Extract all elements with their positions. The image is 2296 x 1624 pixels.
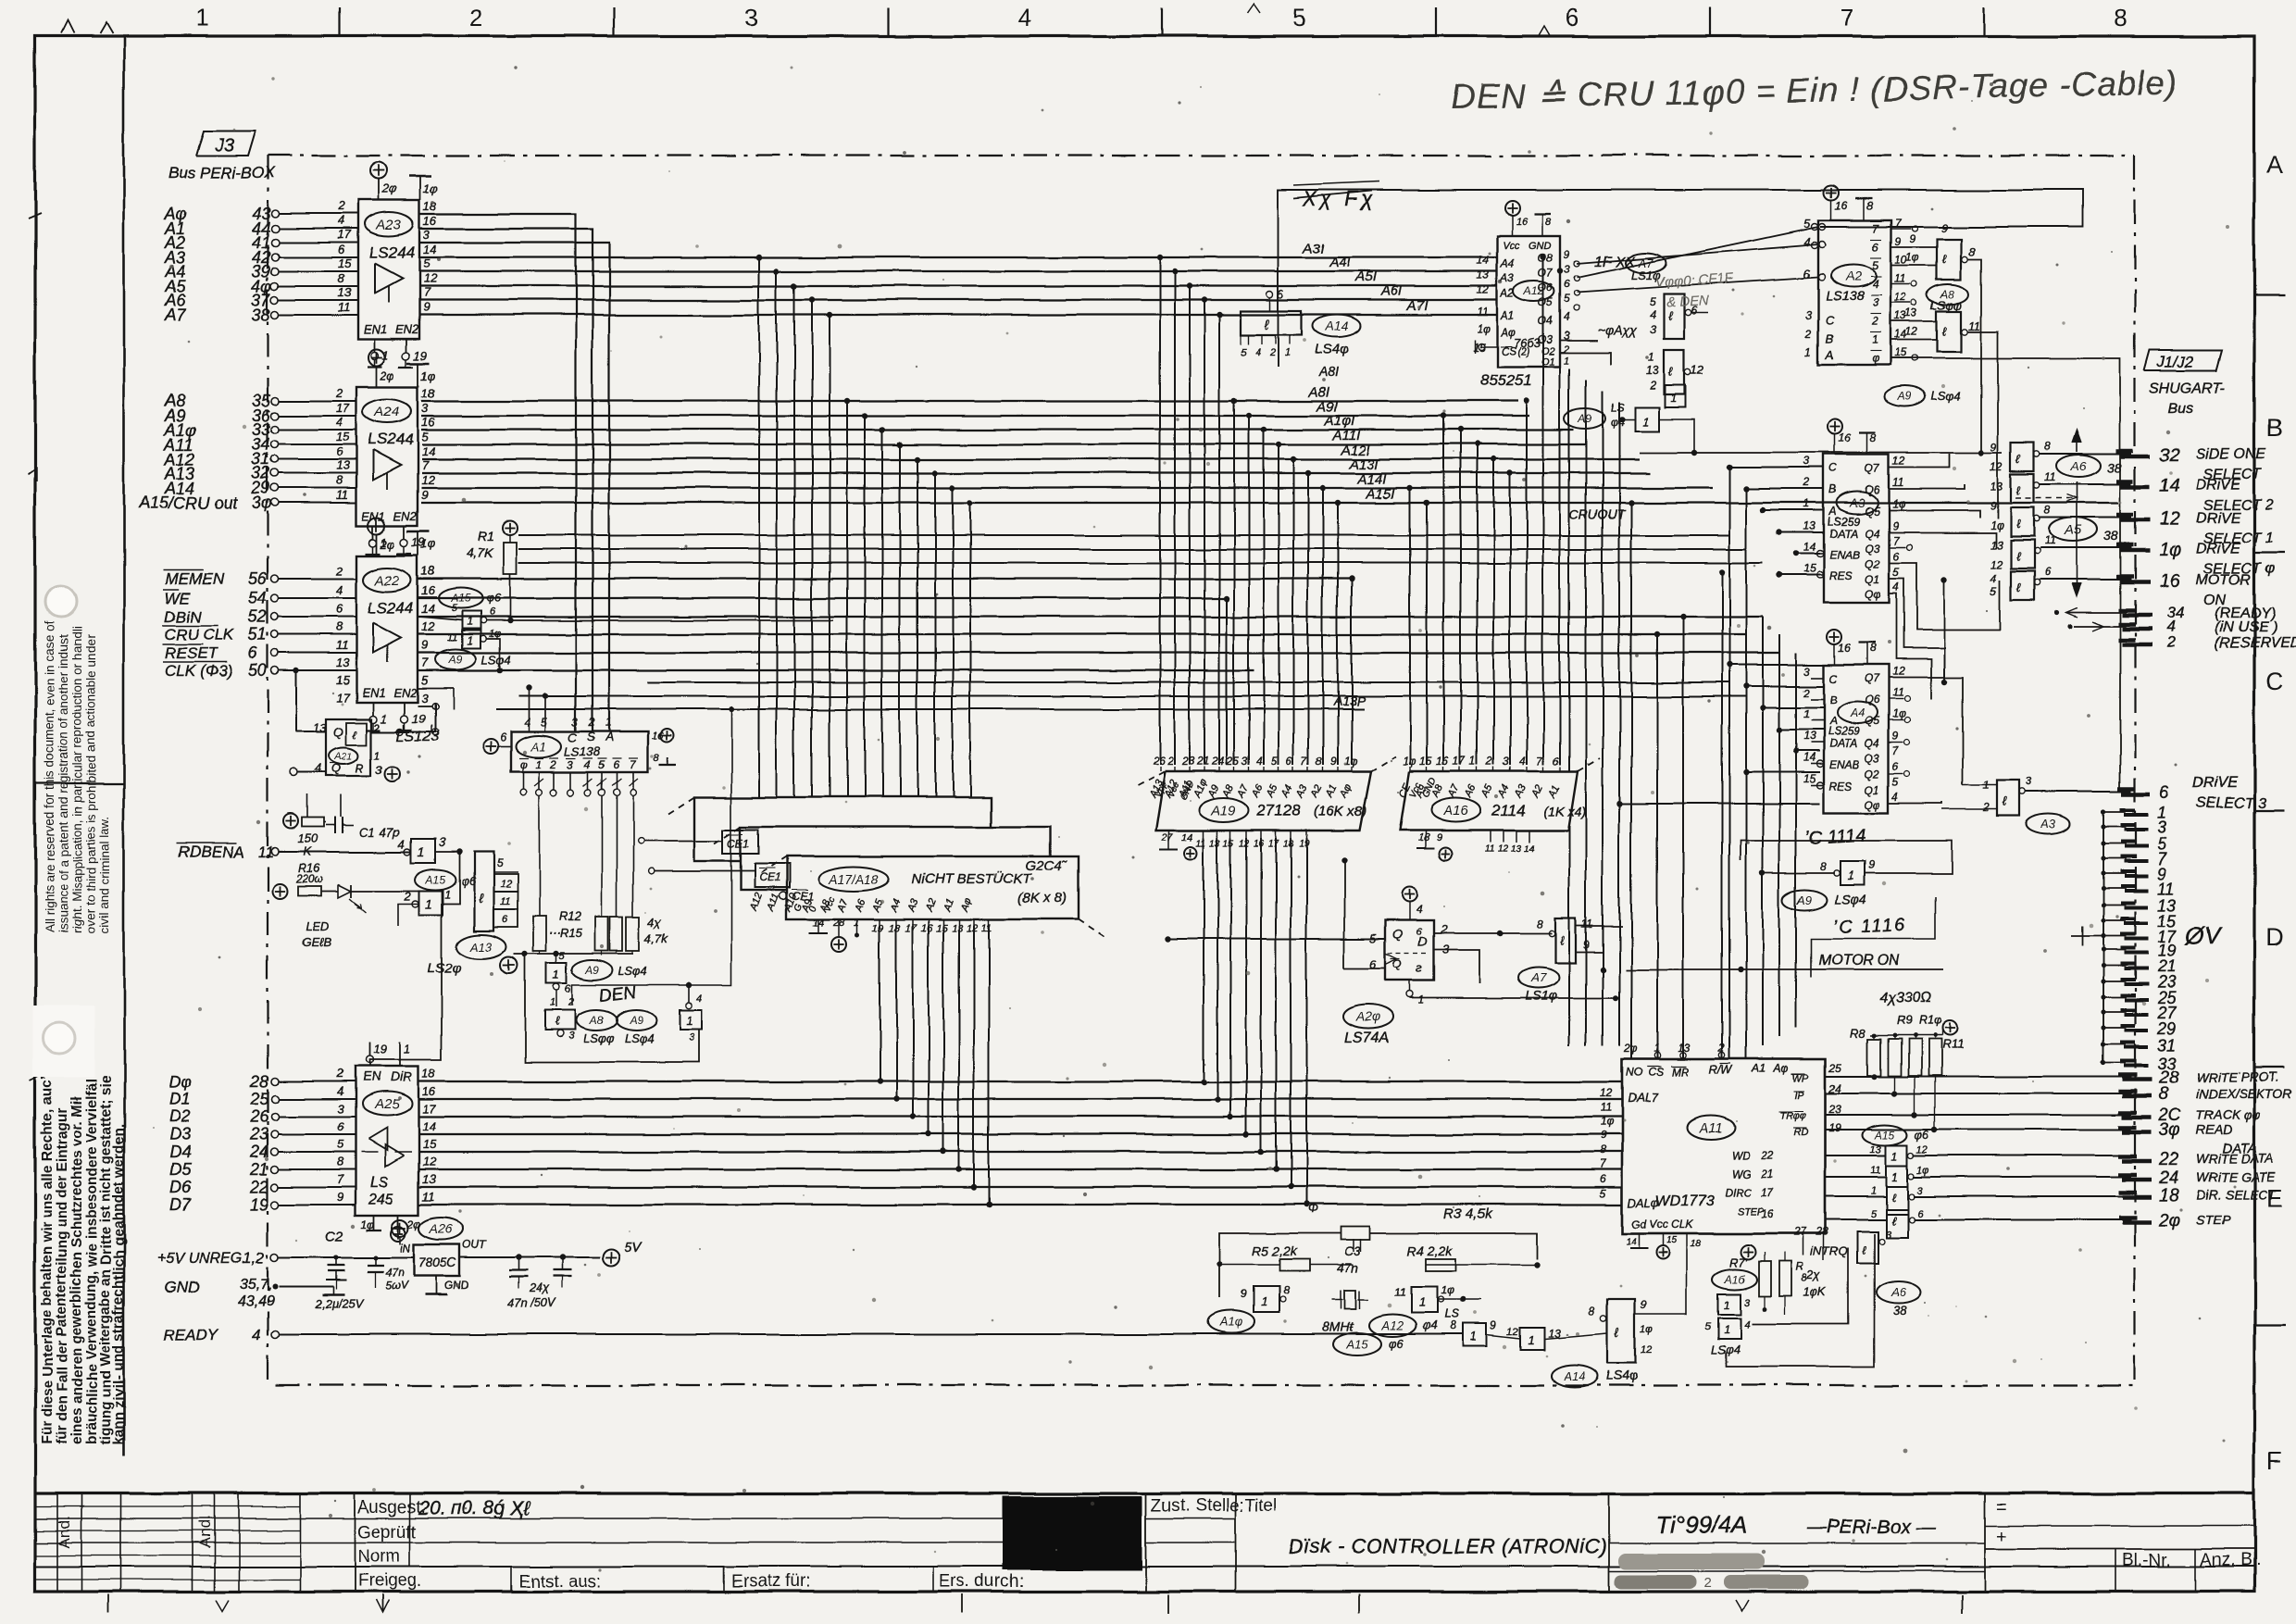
label A5I: [1354, 269, 1377, 285]
svg-text:16: 16: [1835, 199, 1848, 212]
power A13 vcc: [501, 956, 518, 973]
wire oneshot top rail: [1220, 1233, 1537, 1298]
svg-text:1: 1: [1724, 1299, 1730, 1312]
resistor R14 body: [610, 917, 623, 951]
svg-text:2χ: 2χ: [1806, 1268, 1821, 1282]
gate oneshot inv1: [1241, 1284, 1290, 1313]
shugart ground bracket: [2103, 812, 2104, 1063]
svg-text:LSφ4: LSφ4: [481, 653, 511, 667]
IC ROM G2C4 body 3 (A17/A18): [761, 856, 1106, 938]
svg-text:6: 6: [613, 758, 619, 771]
svg-text:+: +: [1996, 1527, 2007, 1547]
label 0V: [2184, 922, 2222, 950]
svg-text:3: 3: [2026, 775, 2032, 788]
bottom edge caret 1: [216, 1600, 229, 1611]
gate A14 bottom pins: [1241, 335, 1291, 358]
title col line entst: [510, 1567, 512, 1592]
svg-text:8: 8: [1450, 1319, 1456, 1332]
wire control MEMEN long: [418, 578, 1352, 580]
svg-text:16: 16: [2159, 571, 2180, 592]
IC A12 right pin stubs: [1574, 261, 1579, 311]
svg-text:5: 5: [1564, 293, 1570, 306]
wire ROM data drop x968: [893, 926, 899, 1102]
svg-text:WG: WG: [1731, 1168, 1751, 1181]
svg-text:Ersatz für:: Ersatz für:: [731, 1572, 812, 1592]
registration caret 3: [1247, 4, 1260, 13]
svg-text:17: 17: [422, 1102, 436, 1116]
wire 2114 address riser x1541: [1424, 500, 1429, 765]
label LS20: [428, 960, 462, 976]
IC A25 DIR stub: [400, 1043, 410, 1067]
svg-text:6: 6: [2044, 566, 2051, 579]
svg-text:5: 5: [1803, 217, 1811, 231]
svg-text:1: 1: [1803, 707, 1810, 720]
svg-text:7: 7: [421, 656, 429, 669]
wire 2114 address riser x1559: [1441, 413, 1446, 765]
svg-text:CE1: CE1: [759, 871, 780, 884]
wire latch A4 B feed: [1743, 683, 1824, 689]
svg-text:A9: A9: [1578, 412, 1592, 425]
IC A12 CS stub: [1475, 340, 1497, 353]
svg-text:Geprüft: Geprüft: [357, 1523, 417, 1543]
svg-text:A22: A22: [374, 572, 400, 588]
label 27 28 intrq: [1793, 1225, 1848, 1258]
svg-text:DRiVE: DRiVE: [2196, 477, 2240, 493]
svg-text:13: 13: [336, 656, 350, 669]
svg-text:1φ: 1φ: [1916, 1165, 1928, 1176]
svg-text:1: 1: [1872, 333, 1878, 346]
svg-text:RES: RES: [1829, 780, 1853, 793]
svg-text:12: 12: [421, 619, 435, 633]
svg-text:2: 2: [1803, 686, 1810, 699]
wire address A0 bus: [419, 214, 576, 731]
svg-text:ENAB: ENAB: [1829, 548, 1860, 561]
svg-text:2φ: 2φ: [381, 181, 397, 195]
resistor R2 network VCC: [283, 814, 298, 829]
wire DBiN into A22: [279, 616, 356, 618]
svg-text:2φ: 2φ: [2158, 1211, 2180, 1230]
wire A4 into A23: [279, 270, 358, 272]
svg-text:8: 8: [1866, 199, 1873, 212]
IC ROM CE1 gate box: [723, 830, 758, 854]
wire +5V unreg to 7805 IN: [279, 1256, 414, 1258]
svg-text:9: 9: [1241, 1288, 1247, 1301]
shugart DS3 label: [2118, 775, 2266, 811]
svg-text:LSφφ: LSφφ: [583, 1031, 614, 1045]
gray note voodoo line1: [1654, 271, 1733, 291]
wire A12 O6 to A2: [1577, 274, 1826, 294]
svg-text:13: 13: [952, 923, 964, 934]
wire ROM address riser x934: [862, 413, 867, 797]
svg-text:LSφ4: LSφ4: [1931, 389, 1961, 403]
svg-text:28: 28: [1816, 1225, 1829, 1238]
bottom edge tick 1: [107, 1594, 109, 1613]
svg-text:1: 1: [686, 1014, 693, 1028]
wire address A11 bus: [421, 443, 1585, 445]
wire CE2 feed: [649, 868, 755, 875]
shugart ground pin 7: [2101, 850, 2167, 868]
label R9 R10: [1896, 1013, 1942, 1027]
signal A9 name+pin: [164, 406, 279, 425]
gate DS3 pins: [1982, 775, 2032, 814]
wire 2114 address riser x1685: [1557, 269, 1563, 765]
svg-text:5: 5: [1271, 755, 1278, 768]
svg-text:1φ: 1φ: [421, 369, 436, 382]
wire address A7 bus: [419, 314, 1497, 316]
wire STEP to gates: [1826, 1218, 1886, 1220]
svg-text:4χ: 4χ: [648, 915, 662, 929]
wire ROM data drop x1052: [971, 926, 977, 1190]
svg-text:EN1: EN1: [362, 509, 385, 523]
svg-text:47n: 47n: [385, 1266, 404, 1279]
svg-text:13: 13: [1646, 364, 1659, 377]
svg-text:4,7k: 4,7k: [645, 931, 669, 945]
resistor R2 150K body: [298, 818, 324, 858]
wire D4 into A25: [279, 1151, 356, 1153]
svg-text:1: 1: [374, 749, 381, 762]
wire data D2 bus: [418, 1116, 1622, 1118]
IC A12 VCC GND pins: [1503, 201, 1552, 252]
wire 27128 address riser x1269: [1172, 269, 1178, 765]
wire A12 O1 O2 right: [1560, 341, 1611, 365]
wire IP to connector: [1826, 1093, 2131, 1094]
svg-text:18: 18: [2159, 1186, 2179, 1206]
svg-text:1φ: 1φ: [2159, 540, 2181, 560]
wire A22 pin17 stub: [397, 724, 439, 735]
IC A11 type label: [1655, 1193, 1713, 1209]
svg-text:4: 4: [252, 1326, 260, 1343]
right grid letter E: [2266, 1184, 2283, 1212]
svg-text:1: 1: [1848, 868, 1854, 882]
svg-text:Freigeg.: Freigeg.: [357, 1571, 422, 1591]
wire write data out: [1913, 1155, 2131, 1156]
gate A15c phi6 boxes: [438, 588, 501, 648]
svg-text:Q5: Q5: [1865, 715, 1879, 728]
IC A11 bottom labels: [1631, 1218, 1693, 1230]
svg-text:O3: O3: [1538, 333, 1553, 346]
wire ROM data drop x1003: [926, 926, 931, 1137]
IC A11 DAL labels: [1628, 1091, 1659, 1209]
IC A22 pin 13/7 numbers: [336, 656, 429, 669]
svg-text:2: 2: [337, 199, 345, 213]
svg-text:6: 6: [1892, 760, 1899, 773]
svg-text:8: 8: [2159, 1085, 2169, 1105]
svg-text:9: 9: [337, 1190, 343, 1204]
gate A9 motor body: [1820, 858, 1875, 885]
svg-text:D3: D3: [169, 1125, 191, 1143]
wire vertical bus x1695: [1568, 369, 1570, 1046]
IC A17/A18 designator oval: [818, 867, 889, 891]
peri-box / shugart boundary right (dash-dot): [2134, 156, 2136, 1385]
svg-text:ʼC 1114: ʼC 1114: [1804, 826, 1866, 849]
IC A23 pin 2/18 numbers: [337, 199, 437, 213]
svg-text:LED: LED: [306, 919, 329, 933]
gate A7a pins: [1650, 295, 1698, 336]
svg-text:7805C: 7805C: [418, 1255, 457, 1269]
IC A19 top pin stubs: [1160, 767, 1352, 771]
IC A2 output labels: [1870, 217, 1917, 365]
shugart pin 16 MOTOR: [2116, 571, 2252, 608]
svg-text:R12: R12: [559, 909, 582, 923]
IC A2 power: [1824, 185, 1873, 220]
IC A3 input labels: [1803, 455, 1860, 582]
svg-text:A6: A6: [2069, 458, 2086, 473]
svg-text:Vcc: Vcc: [1503, 241, 1520, 252]
svg-text:Q5: Q5: [1865, 505, 1879, 518]
oval A15 ph6 designator: [1333, 1333, 1404, 1355]
signal RDBENA name+pin: [176, 843, 279, 861]
svg-text:1φK: 1φK: [1803, 1285, 1828, 1299]
svg-text:9: 9: [1564, 248, 1570, 261]
wire A7 into A23: [279, 314, 358, 316]
svg-text:—PERi-Box —: —PERi-Box —: [1806, 1517, 1937, 1538]
svg-text:A4: A4: [1849, 706, 1865, 720]
shugart pin 28 WRiTE PROT.: [2118, 1068, 2279, 1088]
svg-text:IP: IP: [1794, 1090, 1804, 1101]
gate A14 LS40 body: [1241, 311, 1302, 335]
svg-text:A12: A12: [1380, 1319, 1404, 1333]
top ruler tick 6: [1709, 7, 1711, 37]
svg-text:Ausgest.: Ausgest.: [357, 1498, 426, 1518]
svg-text:13: 13: [336, 458, 350, 472]
svg-text:8: 8: [1316, 755, 1322, 768]
IC A23 EN2 stub: [399, 339, 427, 367]
oval A8 designator mid: [576, 1010, 617, 1045]
svg-text:27: 27: [1793, 1225, 1808, 1238]
label XXFX crossed out: [1294, 181, 1379, 210]
label R4 2.2k: [1407, 1243, 1453, 1258]
wire A7c out2: [1576, 952, 1605, 972]
shugart ground pin 9: [2101, 865, 2166, 883]
wire A1 out7 to R15: [632, 796, 634, 917]
svg-text:Q6: Q6: [1865, 693, 1879, 706]
svg-text:11: 11: [336, 638, 349, 652]
wire oneshot mid rail: [1217, 1262, 1540, 1268]
IC A4 type label: [1828, 725, 1860, 738]
svg-text:D7: D7: [169, 1195, 192, 1214]
svg-text:18: 18: [423, 199, 437, 213]
svg-text:A13: A13: [469, 940, 493, 954]
IC A11 designator oval: [1687, 1116, 1735, 1140]
capacitor C1 47p: [326, 817, 400, 839]
label 2x 10K: [1803, 1268, 1828, 1299]
handwritten title disk-controller: [1289, 1535, 1607, 1558]
IC A3 LS259 body: [1824, 455, 1889, 603]
IC A24 buffer symbol: [373, 450, 401, 489]
svg-text:B: B: [1829, 483, 1837, 496]
IC A21 LS123 body: [326, 718, 371, 776]
svg-text:C3: C3: [1344, 1243, 1361, 1258]
IC A20 pin numbers: [1370, 922, 1450, 971]
resistor R13 body: [595, 917, 608, 951]
svg-text:C: C: [1826, 313, 1835, 327]
wire A3 Q4 route: [1889, 532, 1996, 548]
label Ers durch: [939, 1572, 1024, 1592]
svg-text:3: 3: [744, 4, 757, 31]
svg-text:1: 1: [425, 896, 432, 911]
svg-text:11: 11: [1394, 1286, 1405, 1299]
IC A3 power: [1828, 419, 1877, 455]
shugart ground pin 5: [2101, 835, 2167, 854]
label Ausgest: [357, 1498, 426, 1518]
IC A3 Q3 nc stub: [1889, 544, 1912, 550]
svg-text:WD: WD: [1731, 1149, 1750, 1162]
wire ROM data drop x950: [877, 926, 882, 1084]
svg-text:12: 12: [967, 923, 978, 934]
svg-text:32: 32: [2159, 445, 2179, 466]
svg-text:A8: A8: [589, 1014, 604, 1027]
svg-text:3: 3: [421, 401, 429, 415]
svg-text:6: 6: [336, 602, 343, 616]
shugart ground pin 31: [2101, 1036, 2176, 1055]
wire extra row y578: [518, 534, 1729, 536]
svg-text:12: 12: [422, 1155, 436, 1168]
IC A24 pin 13/7 numbers: [336, 458, 429, 472]
svg-text:27128: 27128: [1256, 802, 1302, 819]
svg-text:3: 3: [1503, 755, 1509, 768]
IC A1 designator oval: [516, 735, 562, 757]
IC A17/A18 nicht bestueckt label: [912, 870, 1033, 887]
IC A23 pin 15/5 numbers: [338, 256, 430, 270]
wire A15b connect: [443, 852, 459, 904]
IC A22 LS244 body: [356, 556, 418, 702]
wire 27128 data drop x1411: [1304, 838, 1309, 1207]
IC A25 EN DIR labels: [363, 1069, 412, 1084]
wire A4 Q7 route: [1889, 678, 1963, 785]
shugart pin 2C TRACK φφ: [2118, 1106, 2261, 1126]
hole punch upper: [45, 586, 77, 618]
handwritten TI99/4A: [1655, 1511, 1748, 1539]
left margin legal text (english): [43, 621, 112, 933]
title col line zust: [1145, 1493, 1147, 1592]
IC A22 pin 15/5 numbers: [336, 673, 429, 687]
wire A1φ into A24: [279, 429, 356, 431]
svg-text:WRiTE GATE: WRiTE GATE: [2196, 1169, 2276, 1184]
svg-text:19: 19: [414, 348, 427, 362]
svg-text:Bus PERi-BOX: Bus PERi-BOX: [168, 164, 275, 181]
svg-text:G2C4˜: G2C4˜: [1026, 858, 1067, 874]
wire A3 Q5 route: [1889, 510, 1980, 518]
svg-text:RESET: RESET: [165, 644, 218, 662]
IC A24 type label: [368, 431, 413, 448]
svg-text:1φ: 1φ: [1905, 251, 1919, 264]
svg-text:16: 16: [921, 923, 933, 934]
gate output column body 2: [1870, 1165, 1928, 1186]
wire ROM address riser x953: [880, 427, 885, 797]
svg-text:2: 2: [470, 4, 483, 31]
svg-text:A: A: [605, 730, 614, 743]
svg-text:iN: iN: [400, 1242, 411, 1255]
right grid tick 2: [2254, 552, 2285, 554]
IC A19 type label: [1256, 802, 1367, 819]
svg-text:1φ: 1φ: [1990, 518, 2004, 531]
IC A23 designator oval: [365, 212, 413, 236]
svg-text:9: 9: [1940, 221, 1947, 234]
oval A10 designator: [1208, 1311, 1254, 1333]
svg-text:DEN: DEN: [598, 983, 637, 1006]
wire ROM address riser x915: [844, 398, 850, 797]
label Anz Bl: [2200, 1551, 2260, 1570]
svg-text:LS2φ: LS2φ: [428, 960, 462, 976]
IC A12 855251 body: [1497, 236, 1560, 367]
svg-text:8: 8: [1589, 1305, 1595, 1318]
svg-text:R: R: [356, 761, 364, 775]
oval A9 designator right: [1885, 386, 1961, 406]
signal +5V UNREG name+pin: [157, 1249, 279, 1267]
wire address A8 bus: [421, 400, 1518, 402]
wire A8b output down: [1967, 331, 1998, 518]
svg-text:CRUOUT: CRUOUT: [1569, 506, 1626, 521]
wire ROM data drop x986: [910, 926, 916, 1119]
svg-text:Für diese Unterlage behalten w: Für diese Unterlage behalten wir uns all…: [40, 1077, 56, 1444]
label A4I: [1329, 255, 1351, 270]
svg-text:O5: O5: [1538, 296, 1553, 309]
svg-text:38: 38: [2103, 529, 2118, 543]
resistor R5 body: [1279, 1259, 1309, 1271]
svg-text:iNDEX/SEKTOR: iNDEX/SEKTOR: [2196, 1086, 2291, 1101]
shugart pin 34 (READY): [2118, 604, 2276, 621]
IC A2 CBA labels: [1804, 308, 1835, 362]
wire latch A4 DATA feed: [1777, 727, 1824, 732]
svg-text:3: 3: [1805, 308, 1812, 321]
svg-text:3: 3: [1744, 1297, 1751, 1308]
gate A13 nand body: [474, 852, 493, 931]
svg-text:A1φI: A1φI: [1324, 413, 1354, 429]
svg-text:4: 4: [1744, 1319, 1750, 1330]
svg-text:2: 2: [1485, 755, 1492, 768]
IC A1 top pin numbers: [524, 716, 612, 729]
revision label And 1: [56, 1516, 73, 1548]
svg-text:3: 3: [1242, 755, 1248, 768]
right grid letter F: [2267, 1447, 2283, 1475]
IC A22 pin 6/14 numbers: [336, 602, 434, 616]
svg-text:1: 1: [381, 711, 387, 725]
svg-text:1φ: 1φ: [1441, 1284, 1454, 1297]
IC A4 input labels: [1803, 665, 1860, 793]
wire A8a output down: [1967, 259, 1981, 453]
label plus: [1996, 1527, 2007, 1547]
IC A25 designator oval: [362, 1092, 412, 1116]
svg-text:18: 18: [421, 386, 435, 400]
svg-text:5: 5: [423, 256, 430, 270]
svg-text:9: 9: [423, 300, 430, 314]
IC A20 clock mark: [1386, 954, 1429, 965]
resistor R1 4.7k: [467, 520, 518, 574]
svg-text:A2: A2: [1844, 269, 1861, 283]
svg-text:47n: 47n: [1337, 1260, 1359, 1275]
svg-text:5: 5: [1600, 1187, 1606, 1200]
label R8: [1850, 1026, 1865, 1040]
svg-text:1,2: 1,2: [243, 1249, 265, 1267]
revision table 1 columns: [57, 1493, 120, 1592]
wire WE into A22: [279, 597, 356, 599]
svg-text:15: 15: [336, 430, 350, 443]
wire 27128 data drop x1362: [1258, 838, 1264, 1155]
svg-text:Q: Q: [1393, 927, 1404, 942]
IC A12 left pin numbers: [1473, 254, 1491, 354]
svg-text:WRiTE PROT.: WRiTE PROT.: [2196, 1069, 2279, 1084]
svg-text:A11: A11: [1698, 1120, 1723, 1136]
svg-text:R4 2,2k: R4 2,2k: [1407, 1243, 1453, 1258]
wire 27128 address riser x1413: [1305, 470, 1311, 765]
svg-text:1φ: 1φ: [1600, 1115, 1614, 1128]
svg-text:1: 1: [1642, 415, 1649, 429]
left margin legal text (german): [40, 1075, 127, 1444]
svg-text:9: 9: [1990, 499, 1997, 512]
svg-text:R1: R1: [478, 529, 494, 543]
oval A5 designator: [2049, 518, 2118, 543]
svg-text:3: 3: [2157, 818, 2166, 837]
